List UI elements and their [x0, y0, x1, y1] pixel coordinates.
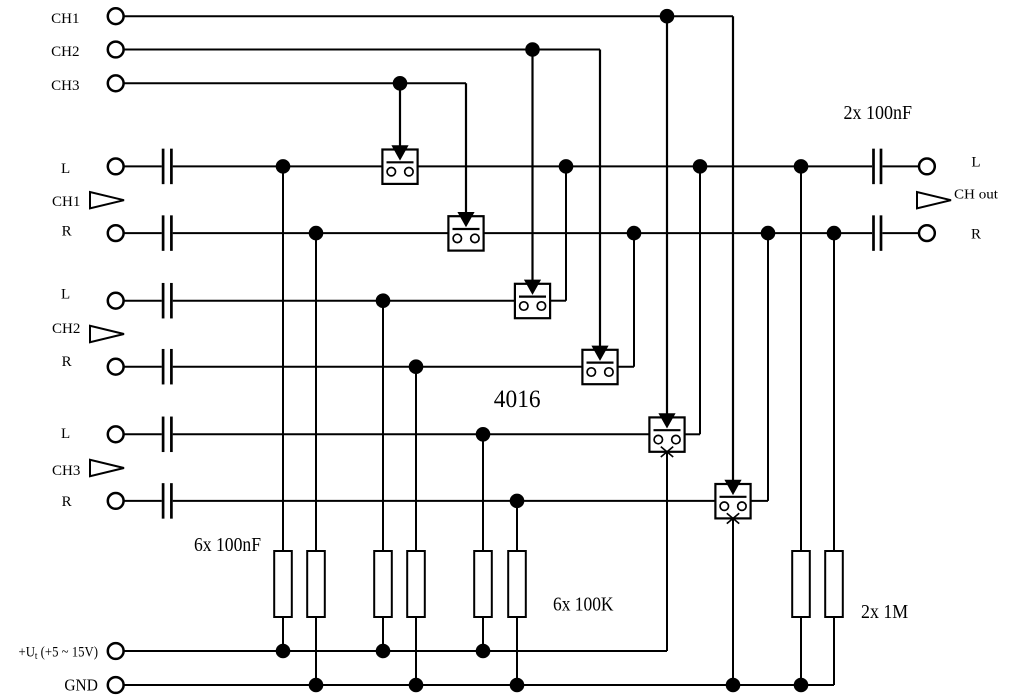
svg-text:R: R	[62, 224, 72, 240]
node L3 bias tap	[476, 427, 491, 442]
wire node at x=383 down to resistor	[382, 301, 384, 551]
terminal CH2 (ch2)	[108, 42, 124, 58]
wire L bus down to 1M resistor	[800, 166, 802, 551]
terminal R (r2)	[108, 359, 124, 375]
wire L1 from switch	[418, 165, 872, 167]
wire R1 from switch	[484, 232, 872, 234]
node GND / R-R1	[309, 678, 324, 693]
resistor 100K at x=316	[307, 551, 325, 617]
wire resistor x=283 to ut rail	[282, 617, 284, 651]
node R1 bias tap	[309, 226, 324, 241]
node CH2-S3 control tap	[525, 42, 540, 57]
svg-text:R: R	[971, 227, 981, 243]
wire CH2 control line	[124, 49, 600, 51]
wire resistor x=316 to gnd rail	[315, 617, 317, 685]
svg-text:CH3: CH3	[52, 463, 80, 479]
svg-text:CH2: CH2	[52, 321, 80, 337]
capacitor 100nF on L1	[162, 149, 165, 185]
svg-text:CH out: CH out	[954, 188, 998, 203]
wire resistor x=517 to gnd rail	[516, 617, 518, 685]
analog switch S5 (4016)	[649, 16, 684, 457]
wire R3 from switch	[751, 500, 768, 502]
terminal GND (gnd)	[108, 677, 124, 693]
terminal L (l1)	[108, 159, 124, 175]
wire GND rail	[124, 684, 834, 686]
svg-text:4016: 4016	[494, 386, 541, 413]
wire resistor x=383 to ut rail	[382, 617, 384, 651]
wire L1 to switch	[173, 165, 383, 167]
capacitor 100nF on R2	[162, 349, 165, 385]
wire node at x=517 down to resistor	[516, 501, 518, 551]
svg-text:CH1: CH1	[52, 194, 80, 210]
resistor 100K at x=517	[508, 551, 526, 617]
wire R2 from switch	[618, 366, 634, 368]
analog switch S6 (4016)	[715, 16, 750, 523]
CH2 group marker triangle	[90, 326, 124, 342]
analog switch S4 (4016)	[582, 50, 617, 385]
wire R output to terminal	[882, 232, 919, 234]
node GND / R-R2	[409, 678, 424, 693]
capacitor 100nF on R1	[162, 215, 165, 251]
analog switch S3 (4016)	[515, 50, 550, 319]
capacitor 100nF on L3	[162, 417, 165, 453]
wire R bus down to 1M resistor	[833, 233, 835, 551]
svg-text:+Ut (+5 ~ 15V): +Ut (+5 ~ 15V)	[19, 645, 99, 663]
node +Ut / R-L3	[476, 644, 491, 659]
svg-text:6x 100nF: 6x 100nF	[194, 534, 261, 556]
wire R3 riser to R bus	[767, 233, 769, 501]
wire R3 to switch	[173, 500, 716, 502]
terminal L (l2)	[108, 293, 124, 309]
wire node at x=316 down to resistor	[315, 233, 317, 551]
wire S6 substrate to GND rail	[732, 518, 734, 685]
wire node at x=283 down to resistor	[282, 166, 284, 551]
wire L output to terminal	[882, 165, 919, 167]
node R bus / R2 join	[627, 226, 642, 241]
svg-text:2x 1M: 2x 1M	[861, 601, 908, 623]
svg-text:CH2: CH2	[51, 44, 79, 60]
CH3 group marker triangle	[90, 460, 124, 476]
terminal L (l3)	[108, 426, 124, 442]
wire L2 input segment	[124, 300, 162, 302]
wire L2 riser to L bus	[565, 166, 567, 300]
resistor 100K at x=483	[474, 551, 492, 617]
wire L3 to switch	[173, 433, 650, 435]
wire CH3 control line	[124, 82, 466, 84]
analog switch S1 (4016)	[382, 83, 417, 184]
svg-text:L: L	[61, 426, 70, 442]
svg-text:L: L	[971, 155, 980, 171]
svg-text:GND: GND	[64, 676, 98, 695]
wire node at x=416 down to resistor	[415, 367, 417, 551]
resistor 100K at x=383	[374, 551, 392, 617]
wire L3 input segment	[124, 433, 162, 435]
wire R2 to switch	[173, 366, 583, 368]
wire resistor x=483 to ut rail	[482, 617, 484, 651]
svg-text:CH1: CH1	[51, 11, 79, 27]
node CH1-S5 control tap	[660, 9, 675, 24]
CH out marker triangle	[917, 192, 951, 208]
resistor 1M right	[825, 551, 843, 617]
node R bus / R3 join	[761, 226, 776, 241]
terminal CH3 (ch3)	[108, 75, 124, 91]
wire R3 input segment	[124, 500, 162, 502]
svg-text:R: R	[62, 354, 72, 370]
node L2 bias tap	[376, 293, 391, 308]
node CH3-S1 control tap	[393, 76, 408, 91]
capacitor 100nF output L	[872, 149, 875, 185]
svg-text:L: L	[61, 287, 70, 303]
terminal L out	[919, 159, 935, 175]
node L1 bias tap	[276, 159, 291, 174]
wire L3 riser to L bus	[699, 166, 701, 434]
svg-text:2x 100nF: 2x 100nF	[844, 102, 913, 124]
wire 1M left to GND rail	[800, 617, 802, 685]
terminal +Ut (ut)	[108, 643, 124, 659]
resistor 1M left	[792, 551, 810, 617]
capacitor 100nF output R	[872, 215, 875, 251]
terminal R (r1)	[108, 225, 124, 241]
wire resistor x=416 to gnd rail	[415, 617, 417, 685]
resistor 100K at x=283	[274, 551, 292, 617]
svg-text:6x 100K: 6x 100K	[553, 594, 614, 616]
wire CH1 control line	[124, 15, 733, 17]
wire L1 input segment	[124, 165, 162, 167]
node +Ut / R-L2	[376, 644, 391, 659]
wire 1M right to GND rail	[833, 617, 835, 685]
node L bus / L3 join	[693, 159, 708, 174]
wire node at x=483 down to resistor	[482, 434, 484, 551]
svg-text:L: L	[61, 161, 70, 177]
wire R2 riser to R bus	[633, 233, 635, 367]
capacitor 100nF on L2	[162, 283, 165, 319]
CH1 group marker triangle	[90, 192, 124, 208]
resistor 100K at x=416	[407, 551, 425, 617]
wire R2 input segment	[124, 366, 162, 368]
terminal R out	[919, 225, 935, 241]
wire R1 to switch	[173, 232, 449, 234]
terminal R (r3)	[108, 493, 124, 509]
node R2 bias tap	[409, 359, 424, 374]
wire R1 input segment	[124, 232, 162, 234]
wire L3 from switch	[685, 433, 700, 435]
wire L2 to switch	[173, 300, 515, 302]
wire +Ut supply rail	[124, 650, 667, 652]
node GND / S6 substrate	[726, 678, 741, 693]
svg-text:R: R	[62, 494, 72, 510]
analog switch S2 (4016)	[448, 83, 483, 250]
node L bus / L2 join	[559, 159, 574, 174]
wire L2 from switch	[550, 300, 566, 302]
wire S5 substrate to +Ut rail	[666, 452, 668, 651]
node R3 bias tap	[510, 494, 525, 509]
svg-text:CH3: CH3	[51, 78, 79, 94]
node GND / 1M left	[794, 678, 809, 693]
capacitor 100nF on R3	[162, 483, 165, 519]
node +Ut / R-L1	[276, 644, 291, 659]
node R bus / 1M join	[827, 226, 842, 241]
terminal CH1 (ch1)	[108, 8, 124, 24]
node GND / R-R3	[510, 678, 525, 693]
node L bus / 1M join	[794, 159, 809, 174]
